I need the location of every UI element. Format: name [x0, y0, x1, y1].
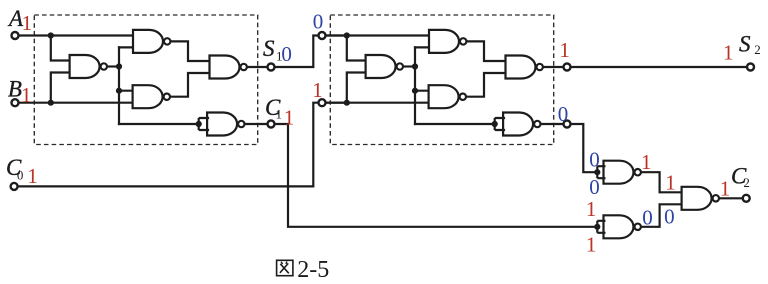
svg-text:0: 0 [558, 102, 569, 126]
nand gate G5 (carry inverter) [207, 113, 244, 136]
nand gate G2 (top) [133, 30, 170, 53]
nand gate G13 (carry-out OR) [682, 187, 719, 210]
nand gate G1 (inputs A,B) [70, 55, 107, 78]
svg-text:1: 1 [665, 170, 676, 194]
nand gate G9 (sum output) [506, 56, 543, 79]
junction G1 output node [116, 63, 122, 69]
wire stage-2 carry to G11 inputs [567, 124, 597, 172]
wire column to G3 upper input [119, 90, 135, 92]
wire S2 output run [567, 66, 751, 68]
svg-text:1: 1 [559, 38, 570, 62]
wire column to G2 lower input [119, 46, 135, 48]
wire G5 output to carry terminal [245, 123, 272, 125]
wire distribution column vertical (net P1) [118, 47, 120, 124]
junction column tap to G3 [116, 88, 122, 94]
terminal stage-2 A input node [319, 32, 326, 39]
svg-text:1: 1 [276, 106, 283, 121]
junction A-row node [48, 32, 54, 38]
nand gate G10 (carry inverter) [503, 113, 540, 136]
tied inputs of G12 [597, 221, 605, 233]
nand gate G12 (inverter, C1) [604, 215, 641, 238]
svg-text:B: B [8, 76, 22, 101]
wire G9 output to sum terminal [543, 66, 567, 68]
wire A junction to G6 top input [347, 36, 368, 61]
wire A junction to G1 top input [51, 36, 72, 61]
svg-text:1: 1 [21, 83, 32, 107]
nand gate G4 (sum output) [210, 56, 247, 79]
wire column to G10 tied inputs [415, 123, 495, 125]
wire G8 output to G9 bottom input [466, 73, 508, 97]
wire G4 output to sum terminal [247, 66, 271, 68]
junction A-row node [344, 32, 350, 38]
terminal stage-2 carry node [564, 121, 571, 128]
wire column to G5 tied inputs [119, 123, 199, 125]
wire column to G8 upper input [415, 90, 431, 92]
wire G11 output to G13 top input [642, 172, 684, 192]
wire input B row (net B1) [15, 102, 135, 104]
wire B junction to G1 bottom input [51, 73, 72, 103]
svg-text:1: 1 [586, 233, 597, 257]
junction B-row node [344, 100, 350, 106]
terminal S1 node [268, 64, 275, 71]
svg-text:2-5: 2-5 [297, 257, 329, 283]
nand gate G3 (bottom) [133, 85, 170, 108]
junction column tap to G8 [412, 88, 418, 94]
svg-text:0: 0 [642, 206, 653, 230]
terminal input A [12, 32, 19, 39]
half-adder 2 dashed enclosure [330, 15, 553, 145]
tied inputs of G10 [495, 118, 505, 130]
terminal output S2 [747, 64, 754, 71]
terminal output C2 [743, 195, 750, 202]
wire G1 output to distribution column [107, 65, 119, 67]
junction B-row node [48, 100, 54, 106]
wire G3 output to G4 bottom input [170, 73, 212, 97]
wire G7 output to G9 top input [466, 41, 507, 61]
svg-text:S: S [739, 32, 751, 57]
svg-text:1: 1 [22, 11, 32, 35]
svg-text:0: 0 [17, 167, 24, 182]
svg-text:0: 0 [664, 205, 675, 229]
tied inputs of G11 [597, 166, 605, 178]
svg-text:0: 0 [589, 175, 600, 199]
nand gate G6 (inputs A,B) [366, 55, 403, 78]
nand gate G7 (top) [429, 30, 466, 53]
nand gate G8 (bottom) [429, 85, 466, 108]
svg-text:2: 2 [743, 175, 750, 190]
svg-text:S: S [263, 36, 275, 61]
half-adder 1 dashed enclosure [34, 15, 257, 145]
wire G10 output to carry terminal [541, 123, 568, 125]
svg-text:2: 2 [754, 42, 761, 57]
terminal stage-2 B input node [319, 99, 326, 106]
svg-text:1: 1 [284, 106, 295, 130]
wire column to G7 lower input [415, 46, 431, 48]
svg-text:1: 1 [723, 41, 734, 65]
junction G6 output node [412, 63, 418, 69]
nand gate G11 (inverter, stage-2 carry) [604, 161, 641, 184]
wire S1 to stage-2 A input [271, 36, 347, 68]
wire C0 input run [18, 103, 347, 187]
wire G12 output to G13 bottom input [642, 204, 684, 227]
svg-text:0: 0 [313, 10, 324, 34]
svg-text:0: 0 [589, 147, 600, 171]
svg-text:1: 1 [720, 177, 731, 201]
wire G13 output to C2 terminal [720, 197, 747, 199]
wire B junction to G6 bottom input [347, 73, 368, 103]
svg-text:1: 1 [27, 164, 38, 188]
terminal input C0 [11, 183, 18, 190]
terminal stage-2 sum node [564, 64, 571, 71]
terminal C1 node [268, 121, 275, 128]
wire G2 output to G4 top input [170, 41, 211, 61]
wire G6 output to distribution column [403, 65, 415, 67]
svg-text:1: 1 [586, 197, 597, 221]
wire input A row (net A2) [322, 34, 431, 36]
wire input B row (net B2) [322, 102, 431, 104]
svg-text:0: 0 [281, 42, 292, 66]
terminal input B [12, 99, 19, 106]
tied inputs of G5 [199, 118, 209, 130]
wire C1 down-run to G12 inputs [271, 124, 597, 227]
wire distribution column vertical (net P2) [414, 47, 416, 124]
svg-text:1: 1 [312, 78, 323, 102]
wire input A row (net A1) [15, 34, 135, 36]
caption kanji zu (figure) [277, 260, 293, 275]
svg-text:1: 1 [641, 150, 652, 174]
